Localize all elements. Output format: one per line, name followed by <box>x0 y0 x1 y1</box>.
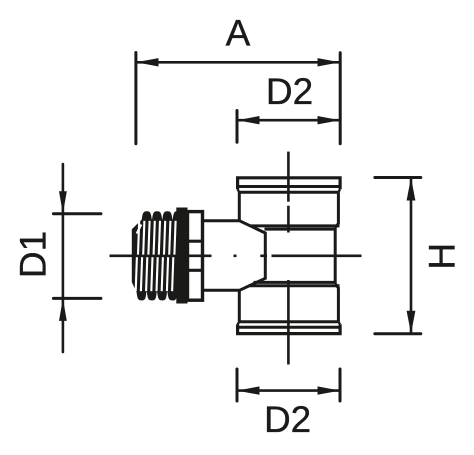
tee bottom socket wall right <box>335 284 338 322</box>
dimension D1 arrowhead down <box>59 191 67 214</box>
collar facet line lower <box>188 269 203 272</box>
dimension D2 top arrowhead left <box>237 116 260 124</box>
dimension D2 bottom arrowhead left <box>237 386 260 394</box>
tee barrel right edge <box>334 228 337 284</box>
tee bottom socket top step lines <box>254 281 336 284</box>
tee top socket wall right <box>335 192 338 227</box>
svg-text:D1: D1 <box>13 231 54 278</box>
tee top socket wall left <box>238 192 241 221</box>
dimension D2 top extension line left <box>236 111 239 143</box>
dimension A arrowhead left <box>136 58 159 66</box>
dimension A extension line right (shared with D2) <box>339 53 342 144</box>
dimension A line <box>136 61 340 64</box>
horizontal centerline (dash-dot) <box>110 255 362 258</box>
adapter body (hex profile) <box>204 221 266 290</box>
tee bottom rim <box>238 324 341 333</box>
dimension A arrowhead right <box>318 58 341 66</box>
tee top socket bottom step lines <box>251 224 340 227</box>
dimension D1 line <box>62 164 65 352</box>
dimension D2 bottom extension line right <box>339 369 342 401</box>
threaded male end (black mass) <box>132 208 188 304</box>
dimension D2 top line <box>237 119 340 122</box>
dimension D1 arrowhead up <box>59 298 67 321</box>
dimension D2 top arrowhead right <box>318 116 341 124</box>
dimension D1 tick bottom <box>53 297 101 300</box>
dimension D2 bottom arrowhead right <box>318 386 341 394</box>
tee top socket rim <box>238 178 341 189</box>
collar facet line upper <box>188 240 203 243</box>
dimension H arrowhead up <box>407 178 416 201</box>
tee bottom socket wall left <box>238 290 241 321</box>
thread white hatch lines <box>136 221 176 291</box>
vertical centerline (dash-dot) <box>287 152 290 365</box>
collar (flange) outline <box>188 212 203 301</box>
dimension H tick bottom <box>375 332 421 335</box>
svg-text:D2: D2 <box>266 71 313 112</box>
svg-text:D2: D2 <box>264 399 311 440</box>
dimension H tick top <box>375 176 421 179</box>
dimension D2 bottom extension line left <box>236 369 239 401</box>
dimension A extension line left <box>134 53 137 144</box>
dimension D2 bottom line <box>237 389 340 392</box>
fitting body white fills <box>188 178 341 334</box>
dimension D1 tick top <box>53 212 101 215</box>
svg-text:A: A <box>226 13 251 54</box>
dimension H line <box>410 178 413 334</box>
dimension H arrowhead down <box>407 311 416 334</box>
svg-text:H: H <box>422 243 463 270</box>
